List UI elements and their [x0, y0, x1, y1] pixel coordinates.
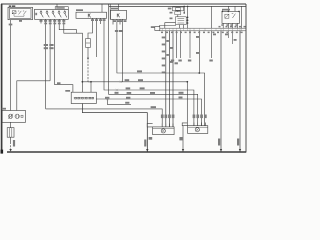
wire lamp F ground join — [146, 127, 148, 152]
fuse box A outline — [173, 7, 184, 11]
wire bus drop 184.2 — [183, 6, 185, 13]
S40 internal wire — [14, 14, 24, 16]
relay D contact — [233, 14, 236, 18]
h73 label — [137, 70, 142, 72]
crossing mark h90 — [116, 89, 118, 91]
connector box S2 — [155, 27, 160, 31]
wire strip to lamp column 3 — [172, 31, 174, 127]
lamp F label — [149, 137, 153, 140]
ground arrow 183 — [182, 149, 184, 152]
wire to S contact 91 — [88, 82, 91, 92]
relay block C — [176, 17, 187, 25]
lamp G pin stubs — [193, 123, 195, 126]
h94.3 left label — [115, 92, 119, 94]
junction dot 199.3 — [198, 72, 200, 74]
wire stub below strip 228 — [227, 31, 229, 38]
lamp F bracket — [147, 124, 152, 127]
wire K1 pin 92.5 to diode — [88, 18, 93, 38]
wire relay C pin down 1 — [179, 25, 181, 29]
wire bus drop 241.4 — [240, 6, 242, 28]
frame left border — [1, 4, 3, 153]
h99 labels — [105, 97, 109, 99]
diode component — [86, 39, 91, 48]
ground label 221 — [218, 139, 220, 146]
h81.8 labels — [125, 79, 130, 81]
frame top border — [1, 3, 246, 5]
labels beside wire 199.3 — [196, 36, 199, 38]
blower resistor symbol — [8, 114, 12, 118]
stub bus to K1 — [101, 4, 103, 12]
h94.3 labels — [127, 92, 132, 94]
wire relay C left h22.7 — [165, 23, 176, 29]
relay D pin labels — [221, 24, 224, 26]
lamp F inner top line — [153, 127, 175, 129]
wire h80 to blower — [17, 81, 50, 111]
junction dot 82.4 — [82, 81, 84, 83]
terminal strip bottom line — [160, 30, 246, 32]
relay D pin wires — [222, 23, 224, 28]
h104.3 end label — [151, 106, 156, 108]
wire strip to lamp column 2 — [168, 31, 170, 127]
wire relay C left h25.5 — [160, 26, 176, 27]
S40 contact b — [24, 11, 27, 15]
label K2 above — [111, 8, 118, 10]
PLACEHOLDER-MID — [71, 92, 147, 152]
wire fuse A to B — [177, 10, 179, 13]
wire stub below strip 176.5 — [176, 31, 178, 58]
label ignition switch box — [56, 7, 64, 9]
wire code label S40 wire — [9, 24, 13, 26]
wire diode down — [87, 48, 89, 58]
inline resistor H — [7, 128, 14, 138]
relay C contact 1 — [178, 17, 185, 19]
pin labels box2 — [40, 20, 43, 22]
lamp F symbol — [161, 129, 165, 133]
lamp G inner top line — [188, 126, 208, 128]
pin labels K2 — [113, 20, 116, 22]
S40 contact a — [19, 11, 22, 15]
blower M letter — [21, 115, 23, 117]
relay K2 box — [111, 10, 127, 19]
wire K2 pin 122.6 — [122, 19, 124, 82]
label K1 above — [76, 9, 83, 11]
ignition switch box S — [35, 9, 69, 19]
fuse B element — [175, 12, 181, 15]
junction dots fuse area — [183, 6, 185, 8]
wire K1 pin 104 — [104, 18, 194, 125]
relay D top dots — [222, 11, 224, 13]
wire pin 50.1 — [49, 19, 51, 81]
crossing mark h81.8 — [120, 81, 122, 83]
terminal strip top line — [160, 27, 246, 29]
wire code labels left pair — [44, 44, 48, 46]
wire strip to lamp column 1 — [165, 31, 167, 127]
wire h108.9 to lamp box — [46, 109, 163, 127]
wire h99 from S box — [96, 99, 201, 126]
lamp G symbol — [195, 128, 199, 132]
ground label 240 — [237, 139, 239, 146]
K1 letter — [88, 14, 90, 18]
label S2 connector — [151, 26, 155, 28]
stub bus to label box — [56, 4, 58, 7]
wire branch v107.5 — [108, 99, 132, 105]
wire lamp G ground — [182, 126, 184, 152]
stub bus to relay D b — [234, 6, 236, 11]
lamp G label — [179, 137, 182, 140]
stub bus to K2 — [117, 4, 119, 10]
wire K1 pin 100.5 stub — [100, 18, 102, 24]
power bus 2 (right half) — [109, 5, 246, 7]
S contact bar — [74, 96, 94, 98]
connector arrow 88 — [87, 58, 89, 61]
E box label — [2, 108, 6, 110]
ground bus 31 — [7, 151, 246, 153]
wire between-box drop 1 — [109, 4, 198, 126]
bottom left corner blob — [1, 150, 4, 154]
wire ground right 1 — [220, 31, 222, 152]
lamp box F bottom center — [153, 127, 175, 135]
S40 coil — [12, 11, 16, 14]
ground arrow 221 — [220, 149, 222, 152]
junction dot 187.3 — [186, 81, 188, 83]
wire blower bottom — [10, 122, 12, 127]
relay C right stubs — [186, 16, 187, 18]
stub labels below strip — [171, 60, 174, 62]
wire ground right 2 — [239, 31, 241, 152]
wire h81.8 — [82, 82, 187, 126]
S contact circles — [75, 97, 94, 99]
wire bus drop 187.6 — [187, 6, 189, 28]
lamp G bracket — [182, 123, 187, 126]
wire bus drop 211.6 — [211, 6, 213, 28]
relay module S40 inner box — [9, 9, 31, 19]
switch unit 2 — [46, 11, 48, 13]
wire pin 41 stub — [40, 19, 42, 23]
wire between-box drop 2 — [109, 4, 111, 20]
wire pin 63.8 — [64, 19, 83, 92]
h90 labels — [126, 87, 131, 89]
relay K1 box — [76, 12, 107, 18]
label beside stub 211.6 upper — [213, 34, 216, 36]
ground arrow 147.3 — [146, 149, 148, 152]
blower box E bottom left — [2, 111, 25, 123]
wire stub below strip 180.5 — [180, 31, 182, 58]
label relay D — [222, 9, 230, 11]
wire pin 54.7 — [55, 19, 73, 92]
K2 letter — [117, 14, 119, 18]
stub wires far right below strip — [225, 34, 228, 36]
junction dot 91 — [90, 81, 92, 83]
ground arrow 240 — [239, 149, 241, 152]
stub bus to relay D a — [227, 6, 229, 11]
lamp F pin labels — [161, 115, 164, 119]
strip below tick number specks — [161, 32, 163, 33]
relay C contact 3 — [178, 22, 185, 24]
resistor H label — [13, 140, 15, 147]
wire relay C pin down 2 — [183, 25, 185, 29]
S40 pin label b — [19, 20, 22, 22]
wire stub below strip 211.6 — [211, 31, 213, 58]
wire code labels K2 drops — [115, 30, 118, 32]
relay module S40 outer box — [8, 7, 33, 19]
wire code row below box2 — [44, 23, 47, 25]
label S40 — [9, 5, 11, 7]
ignition switch label box — [55, 7, 68, 10]
lamp G pin labels — [193, 115, 196, 119]
relay D coil — [225, 14, 229, 18]
blower motor symbol — [15, 114, 19, 118]
frame right border — [245, 4, 247, 153]
h94.3 right labels — [179, 92, 184, 94]
blower resistor arrow — [8, 114, 13, 119]
lamp F pin stubs — [161, 124, 163, 127]
wire K2 pin 116.9 — [117, 19, 205, 125]
switch unit 1 — [40, 11, 42, 13]
wire stub below strip 190 — [189, 31, 191, 58]
strip above number specks right — [219, 26, 221, 28]
label near h84.7 — [57, 82, 61, 84]
ground arrow left — [9, 149, 11, 152]
relay D box top right — [222, 11, 239, 23]
switch unit 5 — [64, 11, 66, 13]
wire K2 pin 120 stub — [119, 19, 121, 24]
switch unit 4 — [58, 11, 60, 13]
wire to ground left — [10, 137, 12, 142]
pin labels K1 — [91, 19, 94, 21]
ground label 146.8 — [144, 140, 146, 147]
wire pin 59.2 — [59, 19, 76, 33]
wire S40 pin to blower box — [10, 20, 12, 111]
S box label — [65, 90, 70, 92]
column labels rows — [162, 37, 165, 39]
switch unit 3 — [52, 11, 54, 13]
wire pin 45.6 long — [45, 19, 47, 109]
wire 88 lower — [87, 61, 89, 82]
wire drop 199.3 — [198, 31, 200, 73]
wire stub below strip 232 — [231, 31, 233, 44]
blower switch box S center — [71, 92, 96, 103]
label fuse A left — [168, 8, 172, 10]
fuse A element — [176, 8, 181, 10]
strip ticks — [161, 28, 163, 31]
fuse cluster side labels — [170, 12, 173, 14]
wire K1 pin 96.5 stub — [96, 18, 98, 57]
letter c in switch — [35, 13, 37, 15]
wire K2 pin 113 stub — [112, 19, 114, 24]
crossing mark h99 — [106, 98, 108, 100]
lamp box G bottom right — [188, 126, 208, 134]
relay C contact 2 — [178, 20, 185, 22]
stub bus to fuse A — [173, 5, 175, 8]
wire S bottom out — [82, 104, 147, 153]
wire fuse B to relay block — [177, 15, 179, 17]
